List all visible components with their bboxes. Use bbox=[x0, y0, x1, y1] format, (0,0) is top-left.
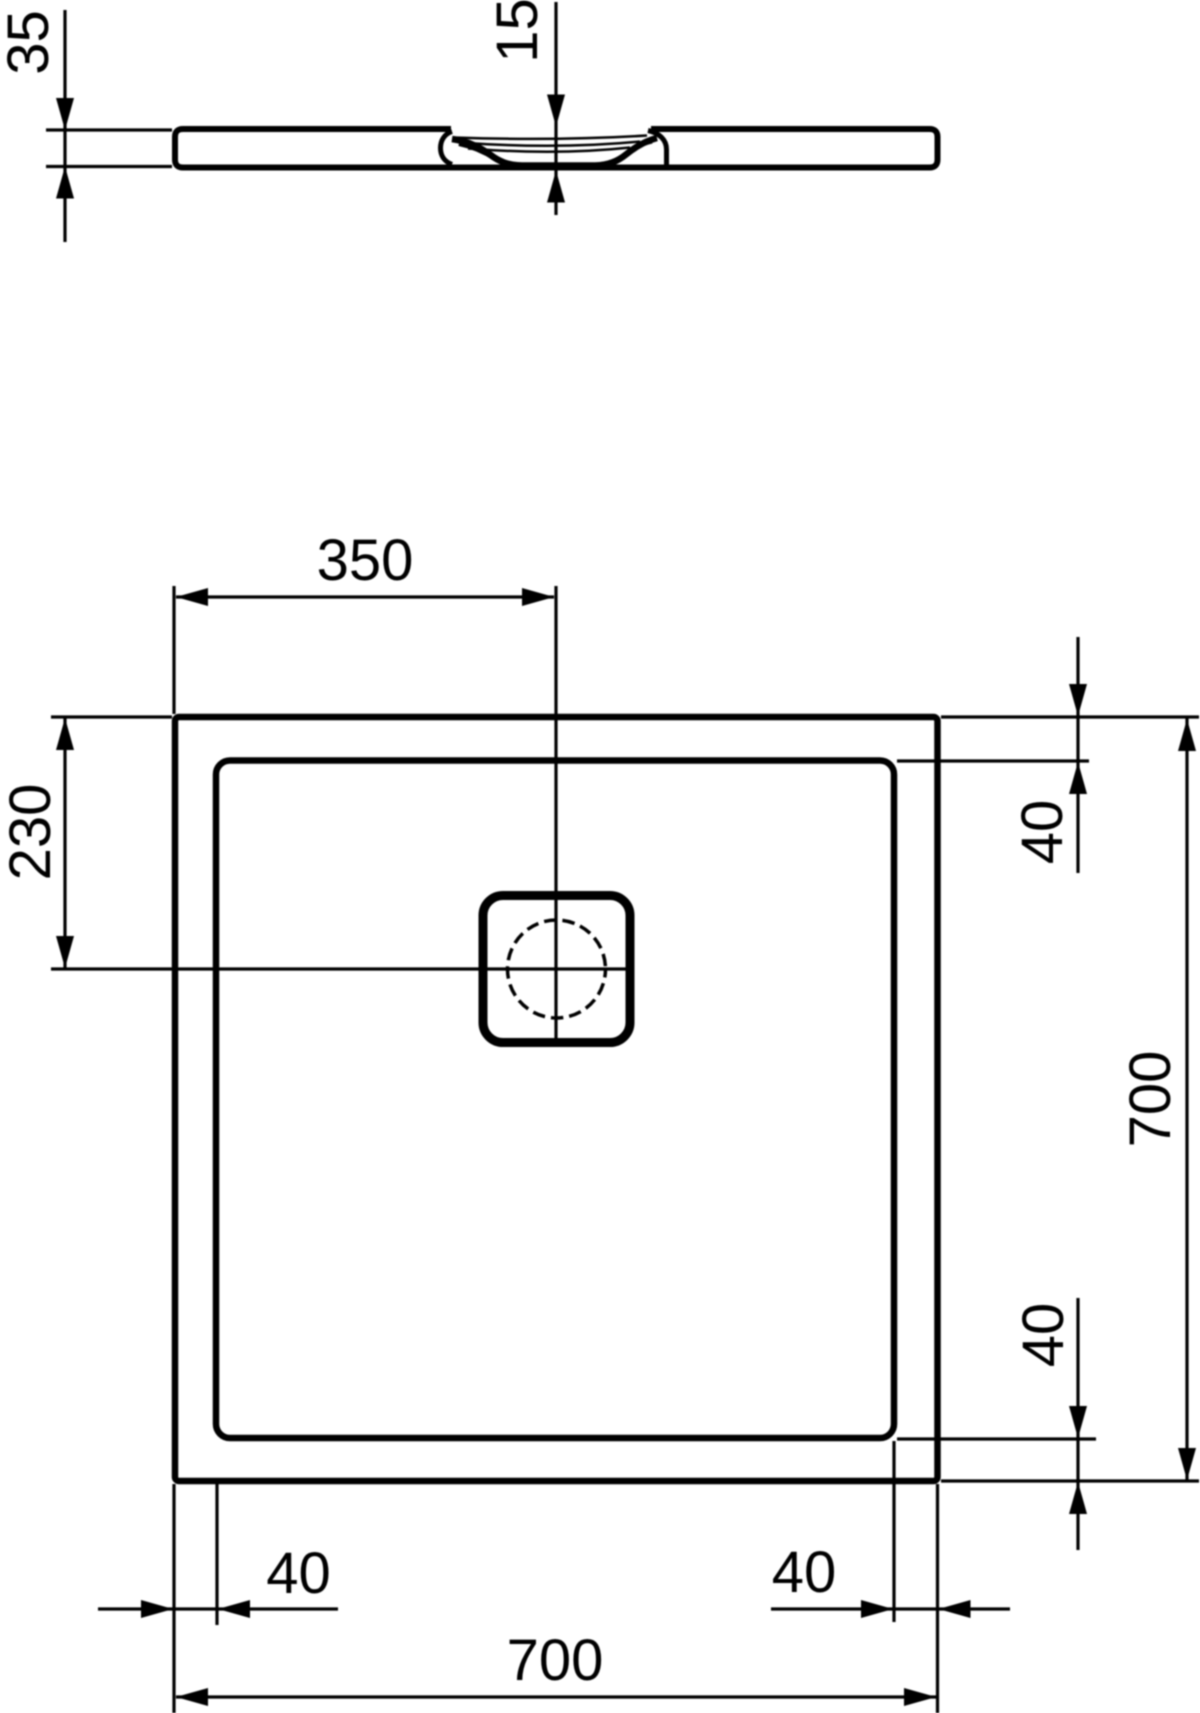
dim 15 arrow down bbox=[547, 95, 565, 127]
dim 700 bottom arrow right bbox=[904, 1688, 936, 1706]
extension line top-left lower bbox=[46, 165, 172, 168]
drain dashed circle bbox=[508, 920, 606, 1018]
svg-text:230: 230 bbox=[0, 784, 63, 881]
svg-text:15: 15 bbox=[485, 0, 550, 63]
dim 40 bottom-right line bbox=[1076, 1298, 1079, 1550]
dim 40 bottom-left arrow right bbox=[141, 1600, 173, 1618]
dim 350 extension line bbox=[172, 586, 175, 714]
horizontal centre line bbox=[51, 967, 631, 970]
dim 230 line bbox=[63, 718, 66, 968]
dim 40 bottom-right arrow up bbox=[1069, 1482, 1087, 1514]
dim 40 bottom-right extension lower bbox=[941, 1479, 1199, 1482]
dim 40 bottom-right-horizontal arrow right bbox=[861, 1600, 893, 1618]
waste cover top contour 3 bbox=[468, 148, 630, 152]
bottom extension line far-right bbox=[936, 1484, 939, 1713]
drain square bbox=[483, 896, 630, 1043]
svg-text:40: 40 bbox=[1011, 1303, 1076, 1368]
svg-text:350: 350 bbox=[317, 528, 414, 593]
dim 700 right arrow up bbox=[1178, 719, 1196, 751]
dim 40 bottom-left arrow left bbox=[218, 1600, 250, 1618]
outer square bbox=[175, 717, 938, 1481]
dim 40 bottom-right extension upper bbox=[897, 1437, 1096, 1440]
dim 700 bottom arrow left bbox=[176, 1688, 208, 1706]
dim 40 bottom-right-horizontal line bbox=[771, 1607, 1010, 1610]
dim 230 arrow down bbox=[56, 936, 74, 968]
dim 40 top-right line bbox=[1076, 637, 1079, 873]
dim 15 line bbox=[554, 2, 557, 215]
dim 40 bottom-left line bbox=[98, 1607, 338, 1610]
dim 40 top-right arrow up bbox=[1069, 762, 1087, 794]
dim 40 bottom-right-horizontal arrow left bbox=[939, 1600, 971, 1618]
dim 230 extension line bbox=[51, 715, 172, 718]
dim 15 arrow up bbox=[547, 171, 565, 203]
extension line top-left upper bbox=[46, 128, 172, 131]
svg-text:35: 35 bbox=[0, 10, 61, 75]
dim 230 arrow up bbox=[56, 718, 74, 750]
waste cover top contour 2 bbox=[459, 142, 640, 146]
waste cover rim right fold bbox=[595, 141, 652, 165]
recess right wall bbox=[648, 131, 667, 166]
waste cover bottom outline bbox=[452, 138, 657, 166]
dim 700 right arrow down bbox=[1178, 1448, 1196, 1480]
recess left wall bbox=[441, 132, 453, 165]
dim 40 top-right extension lower bbox=[897, 759, 1089, 762]
dim 35 arrow down bbox=[56, 98, 74, 130]
svg-text:40: 40 bbox=[1010, 800, 1075, 865]
svg-text:700: 700 bbox=[1118, 1051, 1183, 1148]
bottom extension line far-left bbox=[172, 1484, 175, 1713]
bottom extension line inner-left bbox=[215, 1484, 218, 1625]
svg-text:700: 700 bbox=[507, 1628, 604, 1693]
inner rounded square bbox=[216, 761, 894, 1439]
svg-text:40: 40 bbox=[266, 1541, 331, 1606]
dim 700 bottom line bbox=[176, 1695, 936, 1698]
dim 40 top-right extension upper bbox=[941, 715, 1199, 718]
dim 40 bottom-right arrow down bbox=[1069, 1406, 1087, 1438]
bottom extension line inner-right bbox=[892, 1441, 895, 1622]
dim 350 line bbox=[176, 595, 554, 598]
vertical centre line bbox=[554, 586, 557, 1045]
dim 350 arrow right bbox=[522, 588, 554, 606]
tray slab outline bbox=[175, 129, 938, 168]
dim 350 arrow left bbox=[176, 588, 208, 606]
dim 35 line bbox=[63, 10, 66, 242]
waste cover rim left fold bbox=[459, 144, 525, 166]
dim 700 right line bbox=[1185, 718, 1188, 1480]
waste cover top contour 1 bbox=[453, 136, 647, 139]
dim 35 arrow up bbox=[56, 167, 74, 199]
dim 40 top-right arrow down bbox=[1069, 684, 1087, 716]
svg-text:40: 40 bbox=[772, 1540, 837, 1605]
